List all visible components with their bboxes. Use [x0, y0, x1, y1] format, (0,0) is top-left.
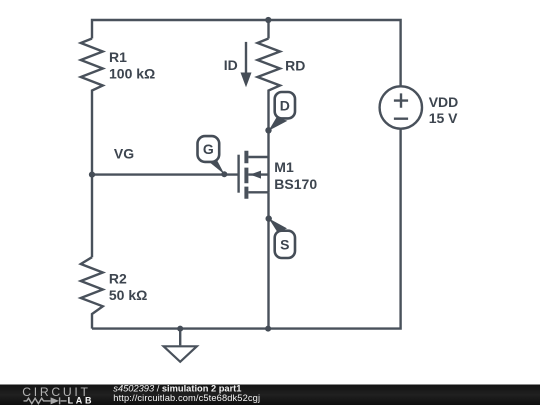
svg-text:M1: M1 — [274, 159, 294, 175]
svg-text:VDD: VDD — [429, 94, 459, 110]
svg-text:RD: RD — [285, 58, 305, 74]
svg-text:BS170: BS170 — [274, 176, 317, 192]
svg-text:R2: R2 — [109, 270, 127, 286]
svg-text:50 kΩ: 50 kΩ — [109, 287, 147, 303]
svg-text:D: D — [280, 97, 290, 113]
svg-text:G: G — [203, 141, 214, 157]
svg-text:VG: VG — [114, 145, 134, 161]
svg-text:100 kΩ: 100 kΩ — [109, 66, 155, 82]
svg-text:LAB: LAB — [68, 395, 95, 405]
svg-text:R1: R1 — [109, 49, 127, 65]
svg-text:15 V: 15 V — [429, 110, 458, 126]
svg-text:S: S — [280, 236, 289, 252]
svg-text:s4502393 / simulation 2 part1: s4502393 / simulation 2 part1 — [113, 384, 241, 394]
svg-text:http://circuitlab.com/c5te68dk: http://circuitlab.com/c5te68dk52cgj — [113, 393, 260, 403]
svg-text:ID: ID — [224, 57, 238, 73]
